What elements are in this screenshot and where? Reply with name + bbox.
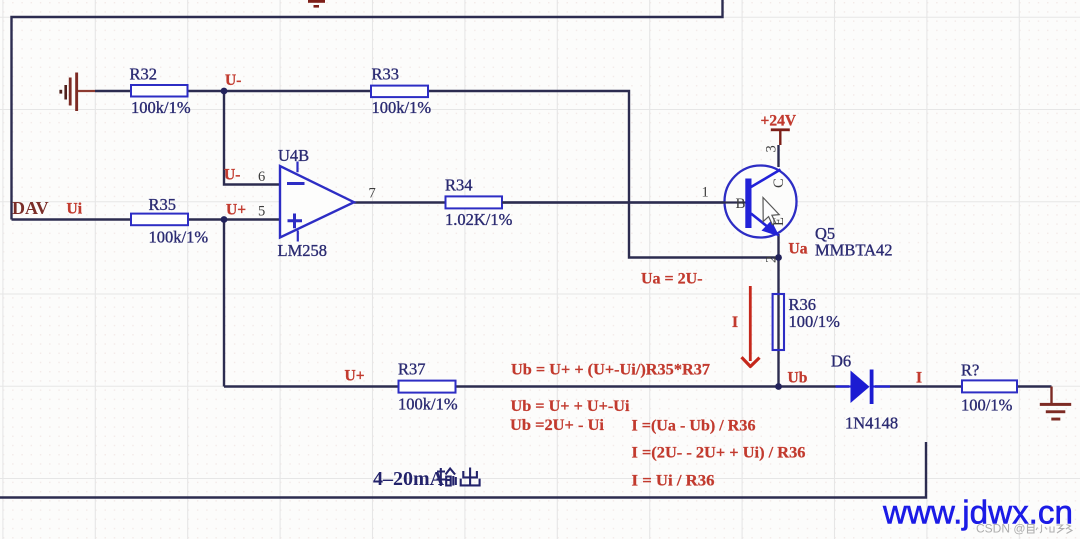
svg-text:U-: U- — [224, 167, 240, 184]
svg-text:E: E — [771, 217, 787, 226]
svg-text:7: 7 — [369, 186, 376, 202]
svg-text:U-: U- — [225, 72, 241, 89]
svg-text:R35: R35 — [149, 195, 177, 214]
svg-text:CSDN @: CSDN @ — [976, 522, 1026, 536]
svg-text:I =(2U- - 2U+ + Ui) / R36: I =(2U- - 2U+ + Ui) / R36 — [632, 445, 806, 462]
svg-text:2: 2 — [764, 256, 780, 263]
svg-text:100k/1%: 100k/1% — [372, 98, 432, 117]
svg-text:Ua = 2U-: Ua = 2U- — [641, 271, 703, 288]
svg-text:R37: R37 — [398, 360, 426, 379]
svg-text:LM258: LM258 — [278, 241, 328, 260]
svg-text:Ua: Ua — [789, 241, 808, 258]
svg-text:MMBTA42: MMBTA42 — [815, 241, 893, 260]
svg-text:1: 1 — [702, 185, 709, 201]
svg-text:Ub =2U+ - Ui: Ub =2U+ - Ui — [510, 417, 605, 434]
svg-text:R34: R34 — [445, 176, 473, 195]
svg-text:R32: R32 — [130, 65, 158, 84]
svg-text:R33: R33 — [372, 65, 400, 84]
svg-text:100k/1%: 100k/1% — [149, 228, 209, 247]
svg-text:C: C — [771, 178, 787, 188]
svg-text:6: 6 — [258, 169, 265, 185]
svg-text:Ub = U+ + U+-Ui: Ub = U+ + U+-Ui — [511, 398, 631, 415]
svg-text:100/1%: 100/1% — [961, 396, 1013, 415]
svg-text:I =(Ua - Ub) / R36: I =(Ua - Ub) / R36 — [632, 418, 756, 435]
svg-text:100/1%: 100/1% — [789, 312, 841, 331]
svg-text:B: B — [736, 196, 746, 212]
svg-text:I: I — [916, 370, 922, 387]
svg-text:R?: R? — [961, 361, 979, 380]
svg-text:100k/1%: 100k/1% — [131, 98, 191, 117]
svg-text:D6: D6 — [831, 352, 851, 371]
svg-text:U+: U+ — [345, 368, 365, 385]
svg-text:3: 3 — [764, 145, 780, 152]
svg-text:+24V: +24V — [761, 113, 797, 130]
svg-text:Ub: Ub — [788, 370, 808, 387]
svg-text:U4B: U4B — [278, 146, 309, 165]
svg-text:100k/1%: 100k/1% — [398, 395, 458, 414]
svg-text:4–20mA: 4–20mA — [373, 468, 445, 490]
svg-text:I: I — [732, 314, 738, 331]
svg-text:I = Ui / R36: I = Ui / R36 — [632, 473, 715, 490]
svg-text:Ub = U+ + (U+-Ui/)R35*R37: Ub = U+ + (U+-Ui/)R35*R37 — [511, 362, 710, 379]
svg-text:5: 5 — [258, 204, 265, 220]
svg-text:1N4148: 1N4148 — [845, 414, 898, 433]
svg-text:U+: U+ — [226, 202, 246, 219]
svg-text:DAV: DAV — [12, 198, 49, 218]
svg-text:1.02K/1%: 1.02K/1% — [445, 210, 513, 229]
svg-text:Ui: Ui — [67, 201, 83, 218]
